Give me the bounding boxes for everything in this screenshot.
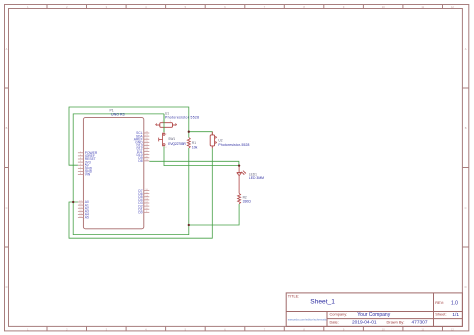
svg-text:1.0: 1.0 bbox=[451, 300, 458, 306]
svg-text:1/1: 1/1 bbox=[452, 312, 459, 318]
svg-text:330Ω: 330Ω bbox=[243, 200, 252, 204]
svg-text:D: D bbox=[465, 285, 467, 289]
svg-text:D0: D0 bbox=[138, 211, 142, 215]
svg-text:A: A bbox=[465, 47, 467, 51]
svg-text:A5: A5 bbox=[85, 216, 89, 220]
svg-text:Sheet_1: Sheet_1 bbox=[310, 299, 335, 306]
svg-text:D: D bbox=[6, 285, 8, 289]
svg-text:REV:: REV: bbox=[435, 301, 444, 305]
svg-text:EVQ22705R: EVQ22705R bbox=[168, 142, 186, 146]
svg-text:D8: D8 bbox=[138, 159, 142, 163]
svg-text:C: C bbox=[6, 206, 8, 210]
svg-text:A: A bbox=[6, 47, 8, 51]
svg-text:VIN: VIN bbox=[85, 173, 91, 177]
svg-text:Date:: Date: bbox=[330, 319, 339, 324]
svg-text:Your Company: Your Company bbox=[357, 312, 390, 318]
svg-text:2019-04-01: 2019-04-01 bbox=[352, 320, 377, 326]
svg-text:C: C bbox=[465, 206, 467, 210]
svg-text:Drawn By:: Drawn By: bbox=[387, 319, 405, 324]
svg-text:Photoresistor 5528: Photoresistor 5528 bbox=[165, 115, 199, 119]
svg-text:Sheet:: Sheet: bbox=[435, 312, 446, 317]
svg-text:UNO R3: UNO R3 bbox=[111, 113, 125, 117]
svg-text:477307: 477307 bbox=[412, 320, 428, 326]
svg-text:TITLE:: TITLE: bbox=[288, 294, 299, 298]
svg-text:SW1: SW1 bbox=[168, 137, 175, 141]
svg-text:Company:: Company: bbox=[330, 312, 348, 317]
svg-text:U2: U2 bbox=[218, 139, 222, 143]
svg-text:10k: 10k bbox=[192, 145, 198, 149]
svg-text:LED 3MM: LED 3MM bbox=[249, 176, 264, 180]
svg-text:Photoresistor-5528: Photoresistor-5528 bbox=[218, 143, 249, 147]
svg-text:B: B bbox=[465, 126, 467, 130]
svg-text:B: B bbox=[6, 126, 8, 130]
svg-text:easyeda.com/editor/schematic: easyeda.com/editor/schematic bbox=[288, 317, 328, 321]
